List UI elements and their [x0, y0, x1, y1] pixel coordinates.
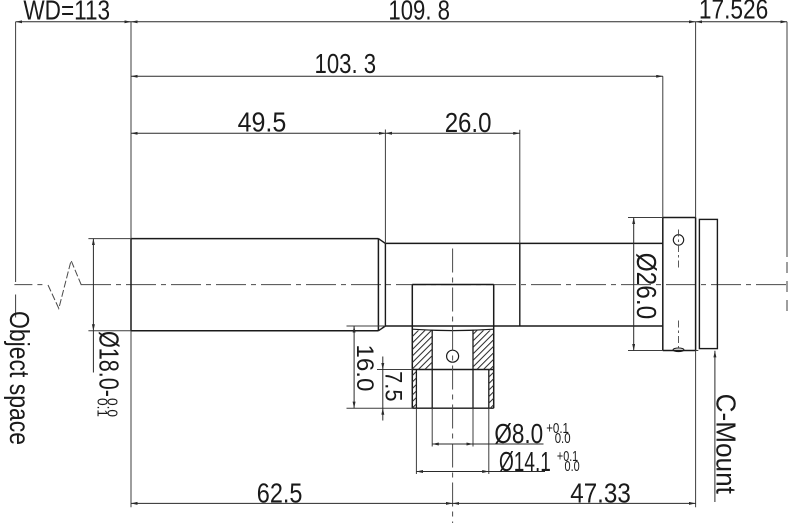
flange outline	[663, 218, 696, 351]
svg-text:26.0: 26.0	[445, 107, 492, 138]
set screw hole circle	[447, 350, 459, 362]
svg-text:0.1: 0.1	[93, 398, 110, 417]
dim dia8 tail	[473, 443, 544, 445]
svg-text:Ø8.0: Ø8.0	[494, 418, 543, 449]
flange screw hole top	[673, 235, 683, 245]
ext 26.0 end	[519, 130, 521, 244]
ext front face upper	[130, 22, 132, 239]
ext 49.5 step	[384, 130, 386, 244]
svg-text:7.5: 7.5	[380, 371, 407, 401]
svg-text:0.0: 0.0	[555, 430, 571, 447]
ext 16.0 bottom	[347, 407, 413, 409]
ext 103.3 flange front	[662, 76, 664, 217]
svg-text:109. 8: 109. 8	[388, 0, 450, 26]
break symbol zigzag	[48, 261, 81, 309]
ext flange bottom right	[696, 350, 699, 352]
ext mount shoulder upper	[695, 22, 697, 218]
svg-text:62.5: 62.5	[257, 478, 303, 509]
dim 26.0	[385, 132, 519, 134]
dim 7.5 line	[382, 370, 384, 409]
ext dia18 top	[88, 238, 131, 240]
dim dia18	[92, 239, 94, 331]
dim 7.5 arrow bottom	[382, 408, 384, 420]
ext dia18 bottom	[88, 330, 131, 332]
svg-text:49.5: 49.5	[238, 106, 287, 137]
svg-text:17.526: 17.526	[699, 0, 768, 24]
ext 16.0 top	[347, 325, 386, 327]
ext dia26 top	[628, 217, 663, 219]
text dia14.1 tol	[557, 448, 580, 475]
hatch lower left strip	[412, 370, 416, 409]
dim 49.5	[131, 132, 385, 134]
text dia8 tol	[546, 420, 570, 447]
svg-text:103. 3: 103. 3	[315, 48, 377, 79]
hatch upper right	[473, 330, 494, 369]
svg-text:Ø18.0-: Ø18.0-	[93, 331, 124, 397]
svg-text:Ø14.1: Ø14.1	[499, 446, 551, 477]
ext dia14.1 left	[415, 408, 417, 474]
ext 7.5 top	[377, 369, 412, 371]
front barrel outline	[131, 239, 378, 331]
mid barrel outline	[385, 243, 662, 326]
dim WD=113	[16, 21, 131, 23]
clamp block outline	[412, 285, 493, 409]
dim dia26	[633, 218, 635, 351]
dim 7.5 arrow top	[382, 357, 384, 370]
dim 109.8	[131, 21, 696, 23]
bore edge lines dia 14.1	[416, 370, 488, 409]
screw hole bottom centerline	[678, 321, 680, 348]
ext dia8 right	[472, 408, 474, 446]
hatch upper left	[412, 330, 432, 369]
svg-text:16.0: 16.0	[351, 344, 378, 391]
ext mount shoulder lower	[695, 351, 697, 508]
ext dia8 left	[431, 408, 433, 446]
dim dia8	[432, 443, 473, 445]
dim 62.5	[131, 502, 453, 504]
flange screw hole bottom	[673, 348, 684, 352]
ext dia26 bottom	[628, 350, 663, 352]
svg-text:Ø26.0: Ø26.0	[631, 253, 662, 320]
clamp block bottom edge	[412, 407, 493, 409]
image plane dashed	[786, 262, 788, 313]
C-mount thread section	[699, 219, 717, 348]
text dia18.0 rotated with tol	[93, 331, 124, 417]
dim dia14.1	[416, 471, 488, 473]
clamp section edge 7.5 shoulder	[412, 369, 493, 371]
dim 103.3	[131, 75, 663, 77]
dim dia14.1 tail	[489, 471, 545, 473]
svg-text:47.33: 47.33	[570, 477, 631, 508]
barrel feature line at 26.0	[519, 243, 521, 326]
ext front face lower	[130, 331, 132, 508]
ext dia14.1 right	[488, 408, 490, 474]
chamfer at front barrel step	[378, 239, 385, 331]
svg-text:C-Mount: C-Mount	[710, 394, 741, 494]
svg-text:0.0: 0.0	[565, 458, 580, 475]
dim 16.0	[353, 326, 355, 408]
dim dia18 tail	[92, 331, 94, 373]
clamp vertical centerline	[452, 249, 454, 524]
svg-text:Object space: Object space	[4, 311, 35, 445]
clamp bore top edge	[412, 329, 493, 330]
leader C-Mount	[714, 351, 716, 502]
ext image plane	[786, 22, 788, 257]
hatch lower right strip	[489, 370, 494, 409]
centerline optical axis	[14, 284, 787, 286]
svg-text:WD=113: WD=113	[23, 0, 110, 25]
bore edge lines dia 8	[432, 330, 473, 408]
screw hole top centerline	[678, 230, 680, 269]
dim 47.33	[453, 502, 696, 504]
object plane line	[15, 22, 17, 318]
dim 17.526	[696, 21, 787, 23]
